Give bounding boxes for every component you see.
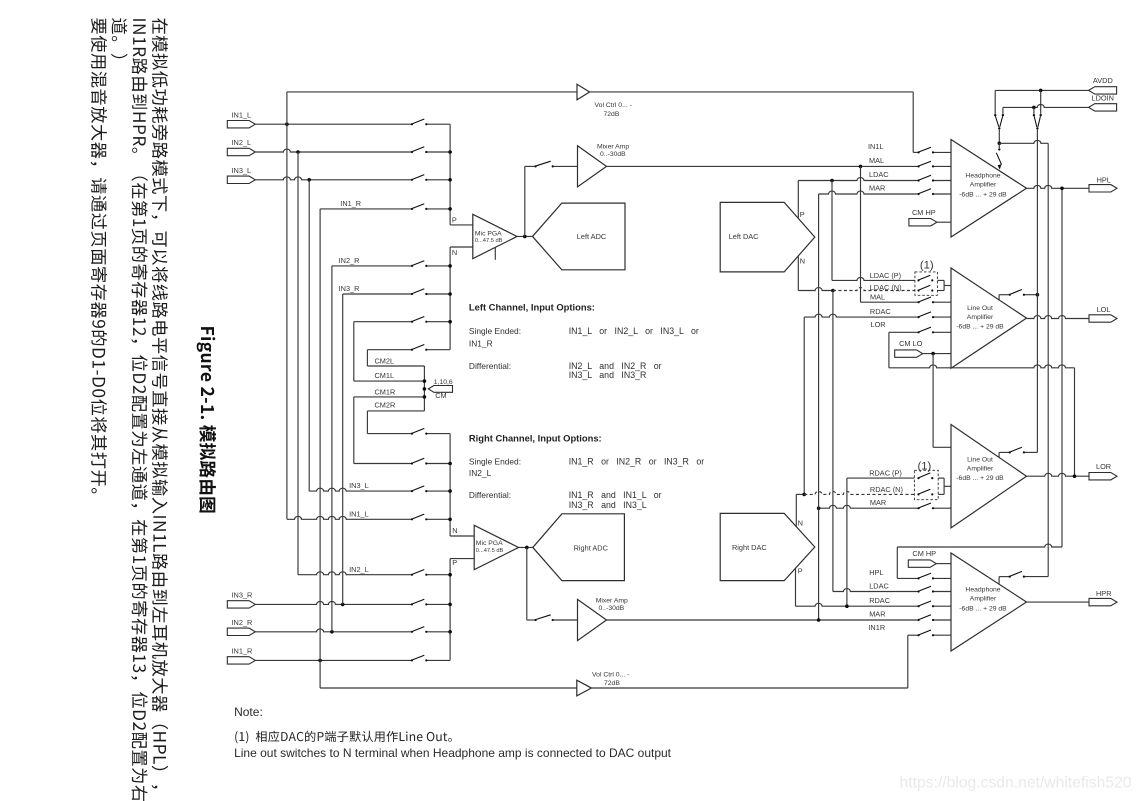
switch S22 LDAC(P)	[917, 279, 919, 281]
svg-text:0..-30dB: 0..-30dB	[600, 151, 626, 158]
wire AVDD rail	[995, 89, 1088, 91]
svg-text:Right Channel, Input Options:: Right Channel, Input Options:	[469, 433, 602, 444]
pin HPL	[1089, 185, 1117, 192]
svg-text:IN2_R: IN2_R	[232, 618, 253, 627]
dac U6 Right DAC	[720, 513, 815, 580]
wire CM2R link	[367, 410, 424, 412]
switch S1 IN1_L	[411, 123, 413, 125]
switch S10 CM1R	[411, 462, 413, 464]
wire N input right	[450, 535, 474, 537]
pin CM LO	[895, 350, 923, 357]
junction dot MAR lineout	[817, 506, 821, 510]
svg-text:Note:: Note:	[234, 705, 263, 719]
svg-text:Right DAC: Right DAC	[732, 543, 767, 552]
svg-text:IN3_L: IN3_L	[232, 166, 252, 175]
adc U9 Right ADC	[533, 514, 625, 581]
bus MAR vertical	[818, 194, 820, 620]
wire P input left	[450, 224, 473, 226]
supply switch pair left	[994, 114, 996, 116]
mixer-amp U3 (left) triangle	[578, 146, 607, 187]
stub HP-R supply	[998, 577, 1000, 584]
svg-text:IN1_R and IN1_L or: IN1_R and IN1_L or	[569, 490, 662, 500]
svg-text:1,10,6: 1,10,6	[434, 379, 453, 386]
wire RDAC P leg	[795, 568, 797, 607]
svg-text:Amplifier: Amplifier	[970, 182, 997, 189]
junction dot MAL tap	[859, 165, 863, 169]
junction dot IN3_L bus	[307, 178, 311, 182]
wire top bypass left segment	[287, 91, 577, 93]
wire supply switch row lineout-L	[1024, 294, 1038, 296]
wire RDAC(P) row	[847, 477, 915, 479]
svg-text:IN2_L: IN2_L	[232, 138, 252, 147]
switch S23 LDAC(N)	[917, 289, 919, 291]
vertical Chinese paragraph line L2	[131, 19, 148, 801]
pin IN1_L	[227, 121, 255, 128]
switch S38 HP-R supply	[1009, 576, 1011, 578]
wire CM2R switch row	[367, 433, 412, 435]
svg-text:IN3_R: IN3_R	[232, 591, 253, 600]
junction dot HPL tap	[1060, 187, 1064, 191]
wire IN1R feed vertical	[907, 635, 909, 688]
junction dots P-bus left	[448, 150, 452, 154]
wire IN1L feed vertical	[912, 92, 914, 152]
wire MAL lineout row	[861, 301, 919, 303]
pin LDOIN	[1089, 104, 1117, 111]
wire LOR link horizontal	[889, 365, 1075, 368]
bus IN2_L vertical	[297, 152, 299, 575]
bus P right-channel	[449, 559, 451, 661]
wire CM1R switch row	[354, 463, 412, 465]
svg-text:Line Out: Line Out	[967, 305, 993, 312]
wire PGA-ADC left	[517, 235, 532, 237]
junction dot supply left	[998, 142, 1002, 146]
wire AVDD drop left	[994, 90, 996, 114]
dashed box (1) right	[914, 470, 938, 499]
vol-ctrl U_VCT triangle (top)	[577, 84, 590, 100]
bus MAL vertical	[860, 166, 862, 302]
pin AVDD	[1089, 87, 1117, 94]
pin IN3_L	[227, 176, 255, 183]
wire N input left	[450, 246, 473, 248]
wire LDAC N leg	[797, 256, 799, 290]
switch S3 IN3_L	[411, 179, 413, 181]
junction dot IN2_L bus	[296, 150, 300, 154]
svg-text:LDOIN: LDOIN	[1092, 93, 1114, 102]
svg-text:Amplifier: Amplifier	[967, 314, 994, 321]
wire CM2L link	[367, 365, 424, 367]
wire mixer-R input row2	[553, 619, 578, 621]
bus IN3_L vertical	[308, 180, 310, 491]
wire RDAC N leg	[795, 494, 797, 527]
svg-text:IN1_L: IN1_L	[349, 509, 369, 518]
svg-text:IN1_R: IN1_R	[232, 647, 253, 656]
wire PGA-ADC right	[519, 546, 533, 548]
junction dots N-bus right	[448, 462, 452, 466]
svg-text:-6dB ... + 29 dB: -6dB ... + 29 dB	[959, 191, 1007, 198]
switch S34 RDAC hpr	[918, 605, 920, 607]
wire mixer-R input row	[527, 619, 536, 621]
wire CM LO	[923, 353, 951, 355]
svg-text:IN2_R: IN2_R	[339, 256, 360, 265]
wire IN2_R bottom row	[255, 629, 412, 632]
svg-text:Line Out: Line Out	[967, 456, 993, 463]
wire LDOIN rail	[1003, 105, 1089, 108]
switch S2 IN2_L	[411, 151, 413, 153]
svg-text:AVDD: AVDD	[1093, 76, 1113, 85]
switch S8 CM2L	[411, 349, 413, 351]
svg-text:-6dB ... + 29 dB: -6dB ... + 29 dB	[956, 324, 1004, 331]
dashed box (1) left	[915, 272, 938, 295]
wire CMLO down vertical	[932, 354, 934, 448]
svg-text:MAR: MAR	[869, 183, 885, 192]
pin IN3_R	[227, 601, 255, 608]
link CM1L vertical upper	[353, 322, 355, 381]
wire MAL row	[607, 165, 919, 167]
gain stub left PGA	[494, 247, 496, 259]
line-out amp U5 (left) triangle	[951, 268, 1027, 368]
junction dot CM LO	[931, 352, 935, 356]
wire top bypass right segment	[590, 91, 914, 93]
wire IN3_R upper row	[343, 293, 412, 295]
svg-text:72dB: 72dB	[604, 680, 620, 687]
bus LDACN vertical	[832, 291, 834, 592]
switch S20 LDAC row	[918, 179, 920, 181]
wire IN1_R bottom row	[255, 659, 412, 661]
svg-text:Amplifier: Amplifier	[967, 465, 994, 472]
switch S21 MAR row	[918, 193, 920, 195]
svg-text:LDAC (N): LDAC (N)	[870, 283, 902, 292]
wire IN1_R upper row	[320, 208, 412, 210]
headphone amp U12 (right) triangle	[951, 553, 1027, 651]
wire RDAC lineout row	[804, 314, 918, 317]
wire LDAC P leg	[797, 181, 799, 219]
switch S16 IN1_R bottom	[411, 659, 413, 661]
svg-text:0...47.5 dB: 0...47.5 dB	[475, 238, 503, 244]
junction dot LDAC tap	[830, 179, 834, 183]
switch S15 IN2_R bottom	[411, 631, 413, 633]
wire IN3_L lower row	[309, 488, 412, 491]
wire LOL output	[1027, 316, 1090, 319]
svg-text:Single Ended:: Single Ended:	[469, 326, 521, 336]
switch S5 IN2_R upper	[411, 265, 413, 267]
vertical Chinese paragraph line L1	[152, 18, 169, 788]
pin IN1_R	[227, 657, 255, 664]
wire IN1L row	[913, 151, 918, 153]
switch S18 MAL row	[918, 165, 920, 167]
junction dot LDOIN	[1032, 106, 1036, 110]
svg-text:HPR: HPR	[1096, 589, 1112, 598]
junction dot MAR mixer	[817, 618, 821, 622]
wire CM1R link	[354, 396, 425, 398]
switch S9 CM2R	[411, 433, 413, 435]
wire right-lineout top input	[933, 446, 951, 448]
bus RDACN vertical	[803, 317, 805, 494]
wire CM HP left	[937, 221, 951, 223]
svg-text:LOR: LOR	[871, 320, 886, 329]
switch S30 MAR lineout	[918, 507, 920, 509]
wire mixer-L input row	[525, 165, 536, 167]
wire LOR link vertical	[888, 332, 890, 368]
vertical Chinese paragraph line L3	[111, 18, 127, 58]
switch S12 IN1_L lower	[411, 518, 413, 520]
bus N right-channel	[449, 434, 451, 536]
svg-text:MAL: MAL	[869, 156, 884, 165]
svg-text:LOR: LOR	[1096, 462, 1111, 471]
switch S24 MAL lineout	[918, 301, 920, 303]
wire IN1_L lower row	[287, 516, 412, 519]
svg-text:IN3_R and IN3_L: IN3_R and IN3_L	[569, 500, 647, 510]
bus IN3_R vertical	[342, 294, 344, 604]
link CM2R vertical lower	[366, 411, 368, 434]
junction dot right PGA out	[525, 546, 529, 550]
svg-text:P: P	[452, 558, 457, 567]
wire RDAC(N) row dashed	[804, 491, 914, 494]
switch S35 IN1R row	[918, 634, 920, 636]
wire MAR row (mixer R out)	[607, 619, 919, 621]
svg-text:Mixer Amp: Mixer Amp	[596, 597, 628, 604]
bus LDAC vertical	[831, 181, 833, 281]
svg-text:MAL: MAL	[870, 293, 885, 302]
link CM2L vertical upper	[366, 350, 368, 366]
svg-text:IN1_R: IN1_R	[340, 199, 361, 208]
wire MAR row	[819, 191, 919, 194]
wire HPL output	[1027, 185, 1090, 188]
bus RDACP vertical	[846, 478, 848, 606]
wire HPL feed vertical	[896, 547, 898, 578]
switch S19 IN1L row	[918, 151, 920, 153]
wire P/N merge left	[943, 280, 945, 290]
vol-ctrl U_VCB triangle (bottom)	[577, 680, 592, 696]
junction dot IN2_R bus	[330, 630, 334, 634]
svg-text:LDAC: LDAC	[869, 170, 889, 179]
wire LOR row	[889, 331, 919, 333]
wire LDAC(N) row dashed	[833, 288, 915, 291]
svg-text:CM LO: CM LO	[899, 339, 923, 348]
junction dots CM bus	[423, 379, 427, 383]
switch S25 RDAC lineout	[918, 316, 920, 318]
svg-text:0..-30dB: 0..-30dB	[599, 605, 625, 612]
svg-text:Line out switches to N termina: Line out switches to N terminal when Hea…	[234, 746, 672, 760]
wire IN1_L row	[255, 123, 412, 125]
svg-text:LOL: LOL	[1097, 305, 1111, 314]
junction dot IN1_L bus	[285, 122, 289, 126]
svg-text:(1): (1)	[918, 461, 932, 473]
bus IN1_L vertical	[286, 92, 288, 519]
wire LOR link down	[1074, 368, 1076, 476]
pin CM HP left	[909, 219, 937, 226]
svg-text:Differential:: Differential:	[469, 361, 511, 371]
svg-text:RDAC: RDAC	[870, 307, 892, 316]
svg-text:IN1_R: IN1_R	[469, 339, 493, 349]
wire IN2_R upper row	[332, 265, 412, 267]
wire LDAC hpr row	[833, 589, 919, 592]
switch S6 IN3_R upper	[411, 293, 413, 295]
pin CM HP right	[908, 560, 936, 567]
svg-text:IN2_L: IN2_L	[349, 565, 369, 574]
svg-text:N: N	[800, 256, 805, 265]
line-out amp U7 (right) triangle	[951, 425, 1027, 528]
bus P left-channel	[449, 124, 451, 225]
switch S26 LOR row	[918, 331, 920, 333]
wire HPL tap vertical	[1061, 188, 1063, 547]
switch S37 MAR hpr row	[918, 619, 920, 621]
svg-text:N: N	[798, 518, 803, 527]
wire mixer-R input vertical	[526, 547, 528, 620]
wire IN2_L lower row	[298, 572, 412, 575]
wire supply cross left	[999, 140, 1048, 143]
svg-text:IN3_L: IN3_L	[349, 481, 369, 490]
pin HPR	[1089, 598, 1117, 605]
wire IN3_L row	[255, 177, 412, 180]
switch S28 RDAC(P)	[917, 477, 919, 479]
svg-text:Mixer Amp: Mixer Amp	[597, 144, 629, 151]
switch S17 mixer-L input	[535, 165, 537, 167]
wire AVDD drop right	[1040, 90, 1042, 114]
bus N left-channel	[449, 247, 451, 350]
svg-text:Mic PGA: Mic PGA	[476, 540, 503, 547]
svg-text:P: P	[452, 216, 457, 225]
note (1) Chinese line	[235, 731, 452, 744]
bus IN1_R vertical	[319, 209, 321, 688]
switch S32 HPL row	[918, 577, 920, 579]
svg-text:IN1R: IN1R	[868, 623, 885, 632]
wire CM1L switch row	[354, 321, 412, 323]
adc U2 Left ADC	[533, 203, 626, 270]
wire LOR output	[1027, 473, 1090, 476]
svg-text:IN2_L: IN2_L	[469, 468, 492, 478]
svg-text:Differential:: Differential:	[469, 490, 511, 500]
wire P/N merge right	[943, 478, 945, 494]
switch S33 LDAC hpr	[918, 590, 920, 592]
mic-pga U8 (right) triangle	[474, 525, 518, 569]
svg-text:IN3_R: IN3_R	[339, 284, 360, 293]
svg-text:Mic PGA: Mic PGA	[475, 230, 502, 237]
svg-text:CM HP: CM HP	[912, 208, 936, 217]
svg-text:HPL: HPL	[1097, 175, 1111, 184]
svg-text:IN3_L and IN3_R: IN3_L and IN3_R	[569, 370, 647, 380]
svg-text:https://blog.csdn.net/whitefis: https://blog.csdn.net/whitefish520	[900, 775, 1132, 792]
svg-text:LDAC (P): LDAC (P)	[870, 271, 901, 280]
wire HP-R supply row	[1024, 576, 1048, 578]
svg-text:Left DAC: Left DAC	[729, 232, 759, 241]
wire IN2_L row	[255, 149, 412, 152]
supply switch pair right	[1033, 114, 1035, 116]
svg-text:0...47.5 dB: 0...47.5 dB	[476, 548, 504, 554]
junction dot RDAC hpr	[845, 604, 849, 608]
svg-text:-6dB ... + 29 dB: -6dB ... + 29 dB	[959, 605, 1007, 612]
switch S27 lineout-L supply	[1009, 294, 1011, 296]
junction dot left PGA out	[523, 235, 527, 239]
svg-text:RDAC (P): RDAC (P)	[869, 468, 902, 477]
switch S31 lineout-R supply	[1009, 451, 1011, 453]
svg-text:HPL: HPL	[869, 568, 883, 577]
switch S13 IN2_L lower	[411, 574, 413, 576]
svg-text:LDAC: LDAC	[869, 582, 889, 591]
wire LDAC row	[798, 178, 918, 181]
headphone amp U11 (left) triangle	[951, 140, 1027, 238]
wire LDOIN drop right	[1033, 107, 1035, 114]
svg-text:Left Channel, Input Options:: Left Channel, Input Options:	[469, 301, 595, 312]
pin LOL	[1089, 315, 1117, 322]
junction dots P-bus right	[448, 573, 452, 577]
svg-text:(1): (1)	[920, 260, 934, 272]
svg-text:Vol Ctrl 0... -: Vol Ctrl 0... -	[595, 102, 632, 109]
svg-text:RDAC: RDAC	[869, 596, 891, 605]
hp-L power switch	[998, 143, 1000, 148]
dac U4 Left DAC	[720, 202, 815, 272]
wire P input right	[450, 558, 474, 560]
svg-text:Headphone: Headphone	[965, 587, 1000, 594]
pin IN2_L	[227, 148, 255, 155]
svg-text:IN1_R or IN2_R or IN3_R or: IN1_R or IN2_R or IN3_R or	[569, 456, 705, 466]
svg-text:CM2R: CM2R	[375, 401, 396, 410]
wire CM1L link	[354, 380, 425, 382]
svg-text:CM: CM	[435, 391, 446, 400]
rail supply-A vertical	[1036, 130, 1038, 453]
wire bottom bypass left	[320, 687, 577, 689]
stub lineout-L supply	[998, 295, 1000, 301]
svg-text:CM1R: CM1R	[375, 388, 396, 397]
wire HPL tap horizontal	[897, 544, 1062, 547]
wire supply common left	[998, 130, 1000, 144]
junction dot supply lineout-L	[1036, 293, 1040, 297]
svg-text:CM1L: CM1L	[375, 371, 395, 380]
svg-text:IN1_L or IN2_L or IN3_L or: IN1_L or IN2_L or IN3_L or	[569, 326, 699, 336]
wire CM2L switch row	[367, 349, 412, 351]
wire LDAC(P) row	[832, 277, 915, 280]
wire LDOIN drop left	[1002, 107, 1004, 114]
pin CM	[428, 386, 452, 393]
wire CM HP right	[936, 563, 951, 565]
junction dot IN1_R bus	[318, 659, 322, 663]
mixer-amp U10 (right) triangle	[578, 599, 607, 640]
junction dot IN3_R bus	[341, 603, 345, 607]
svg-text:N: N	[452, 526, 457, 535]
mic-pga U1 (left) triangle	[473, 214, 517, 258]
bus IN2_R vertical	[331, 266, 333, 632]
junction dot AVDD	[1039, 89, 1043, 93]
junction dot LDAC(N)	[831, 289, 835, 293]
svg-text:Left ADC: Left ADC	[577, 232, 607, 241]
bus CM vertical	[423, 366, 425, 411]
wire bottom bypass right	[591, 687, 907, 689]
wire HPL row	[897, 577, 918, 579]
svg-text:Vol Ctrl 0... -: Vol Ctrl 0... -	[592, 671, 629, 678]
wire LDAC(N) row solid	[798, 288, 833, 291]
wire HPR output	[1027, 601, 1090, 603]
wire mixer-L input vertical	[524, 166, 526, 236]
link CM1R vertical lower	[353, 397, 355, 464]
svg-text:Headphone: Headphone	[965, 173, 1000, 180]
wire MAR lineout row	[819, 505, 919, 508]
vertical Chinese paragraph line L4	[91, 18, 107, 493]
switch S11 IN3_L lower	[411, 490, 413, 492]
figure title (rotated) Figure 2-1	[197, 327, 216, 512]
switch S14 IN3_R bottom	[411, 603, 413, 605]
switch S4 IN1_R upper	[411, 208, 413, 210]
svg-text:IN1L: IN1L	[868, 142, 884, 151]
svg-text:Single Ended:: Single Ended:	[469, 456, 521, 466]
pin LOR	[1089, 473, 1117, 480]
svg-text:P: P	[798, 566, 803, 575]
junction dot LOR feedback	[1073, 474, 1077, 478]
svg-text:MAR: MAR	[870, 498, 886, 507]
svg-text:IN1_L: IN1_L	[232, 110, 252, 119]
wire supply switch row lineout-R	[1024, 451, 1038, 453]
wire IN3_R bottom row	[255, 602, 412, 605]
switch S29 RDAC(N)	[917, 493, 919, 495]
svg-text:CM HP: CM HP	[912, 549, 936, 558]
